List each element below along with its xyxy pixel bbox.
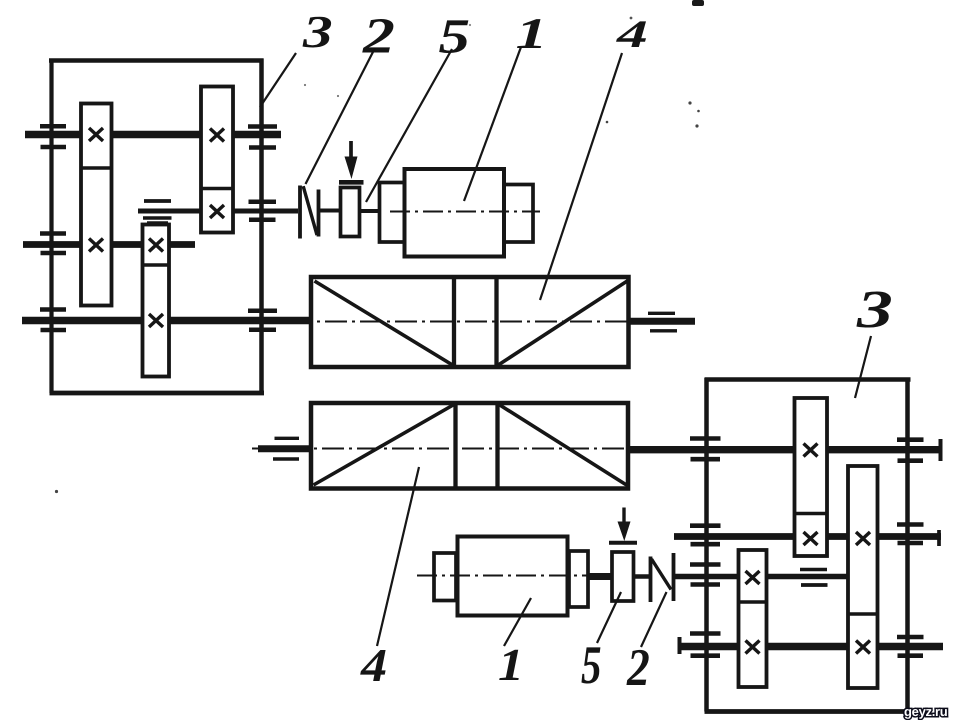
bearing B-L2 [690,526,721,545]
shaft II [23,241,195,248]
leader label 5 bottom [597,592,621,643]
overload clutch 2 bottom [651,553,674,602]
svg-text:3: 3 [856,281,893,340]
support marks stub bottom [275,437,300,440]
svg-text:4: 4 [360,639,387,691]
svg-text:geyz.ru: geyz.ru [904,704,948,719]
bearing B-L3 [690,565,721,585]
overload clutch 2 top [300,186,319,239]
gearbox A housing right wall [259,59,264,394]
bearing B-L4 [690,634,721,656]
shaft stub drum4 top right [629,318,695,325]
brake coupling 5 top [339,141,364,237]
wire shaft coupling-clutch bottom [633,574,650,579]
bearing B end support [800,568,827,571]
leader label 3 right [855,336,871,398]
gear block B-right [848,466,878,688]
bearing B-L1 [690,439,721,460]
gearbox B housing right wall [905,378,910,712]
wire shaft coupling-motor [359,209,381,213]
bearing A-R1 [248,127,277,148]
leader label 2 top [306,48,376,184]
input shaft B [674,574,848,580]
gearbox A housing left wall [49,59,53,394]
leader label 4 bottom [377,467,419,646]
shaft stub drum4 bottom left [258,445,311,452]
end tick shaft III-B [678,637,682,654]
drum 4 top [290,277,693,367]
leader label 2 bottom [641,592,667,647]
bearing A-L2 [40,234,66,254]
bearing B-R1 [897,440,924,461]
motor 1 top [380,169,541,257]
bearing A-L3 [40,310,66,331]
end tick drum shaft [939,439,943,461]
input shaft A [138,209,298,214]
gear block A-left [81,104,112,306]
svg-text:2: 2 [626,637,650,696]
bearing A-R3 [248,311,277,330]
gearbox B housing left wall [704,378,709,712]
end tick shaft II-B [937,530,941,546]
gearbox A housing bottom line [50,391,265,396]
drum 4 bottom [252,403,668,489]
svg-text:4: 4 [616,14,648,57]
svg-text:1: 1 [516,11,548,59]
gear block B-input [739,550,767,687]
gearbox B housing top line [705,377,911,382]
leader label 5 top [366,49,452,202]
shaft III-B [678,643,943,650]
leader label 3 top [260,53,296,107]
svg-text:1: 1 [498,640,524,690]
shaft III output [22,317,311,324]
leader label 1 top [464,47,521,201]
bearing B-R3 [897,637,924,656]
bearing B-R2 [897,525,924,544]
svg-text:2: 2 [362,7,395,63]
bearing A end support [144,199,171,203]
svg-text:5: 5 [581,634,602,695]
gear block B-center [795,398,828,556]
gearbox A housing top line [49,58,264,63]
drum shaft to gearbox B [628,446,941,453]
leader label 1 bottom [504,598,531,646]
shaft I [25,131,281,138]
svg-text:5: 5 [439,10,471,64]
shaft II-B [674,533,941,540]
gearbox B housing bottom line [705,709,907,714]
wire shaft motor-coupling bottom [588,573,612,580]
leader label 4 top [540,53,622,300]
support marks stub top [648,312,675,315]
svg-text:3: 3 [302,6,333,57]
gear block A-mid [143,225,170,377]
brake coupling 5 bottom [609,508,637,602]
bearing A-R2 [249,202,277,220]
scan dust specks [55,0,704,493]
bearing A-L1 [40,126,66,147]
wire shaft clutch-coupling [320,209,341,213]
gear block A-right [201,87,233,233]
motor 1 bottom [417,537,588,616]
